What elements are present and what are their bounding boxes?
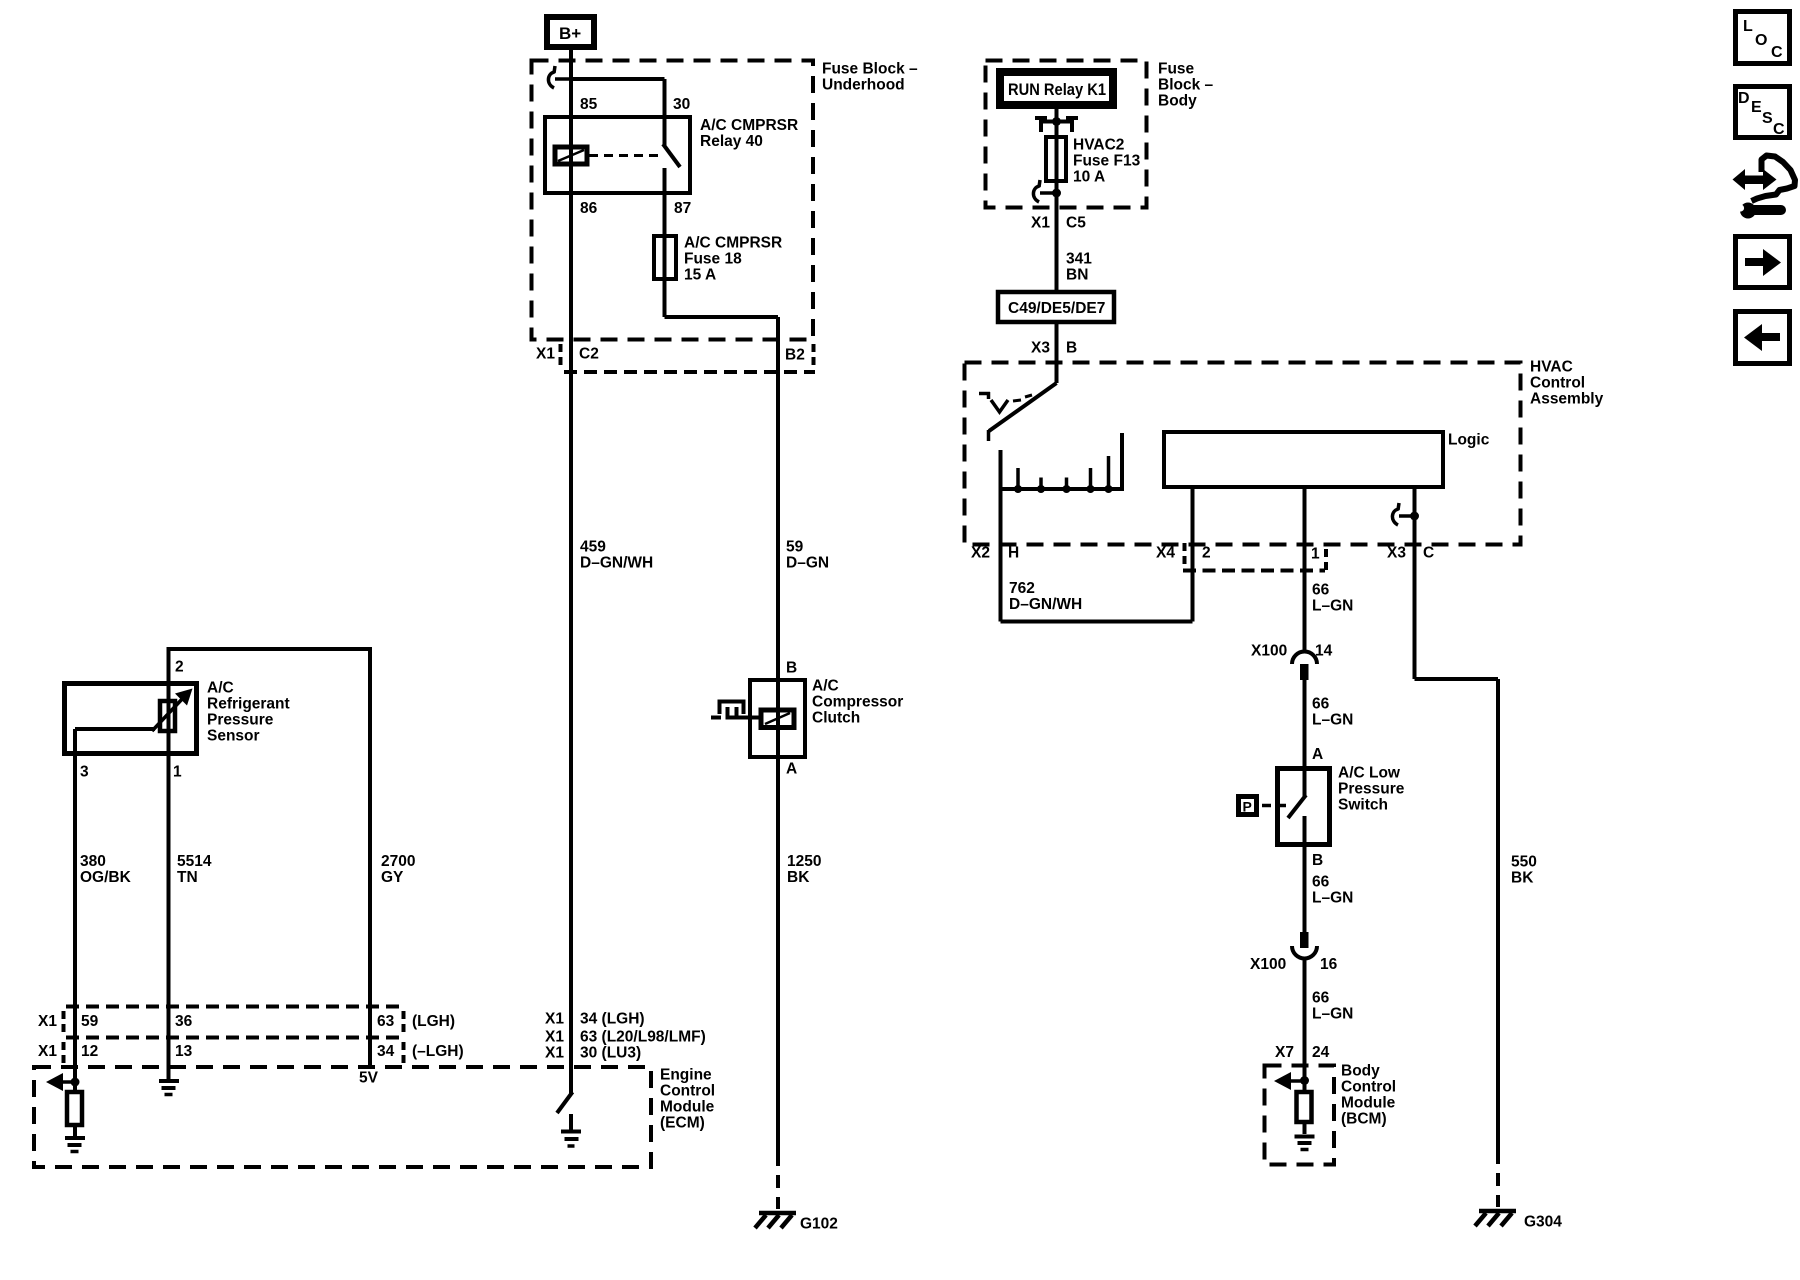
wire 66 L-GN (X100 to switch) (1305, 680, 1354, 797)
svg-text:Assembly: Assembly (1530, 391, 1604, 408)
wire 762 D-GN/WH (1001, 487, 1193, 622)
wire fuse 18 to B2 (665, 279, 779, 317)
svg-text:34 (LGH): 34 (LGH) (580, 1011, 645, 1028)
clutch mechanical link (711, 702, 761, 720)
svg-text:59: 59 (81, 1013, 99, 1030)
svg-text:L–GN: L–GN (1312, 1006, 1353, 1023)
wire 550 BK (1415, 487, 1537, 1151)
ECM ground (459 path) (561, 1132, 581, 1147)
in-line connector X100 pin 16 (1250, 932, 1338, 973)
svg-text:1250: 1250 (787, 853, 821, 870)
svg-text:Fuse: Fuse (1158, 61, 1195, 78)
svg-text:66: 66 (1312, 582, 1330, 599)
svg-text:B: B (1066, 340, 1077, 357)
svg-text:D–GN/WH: D–GN/WH (580, 555, 653, 572)
svg-text:X3: X3 (1031, 340, 1050, 357)
svg-text:A: A (1312, 746, 1323, 763)
HVAC vacuum actuator symbol (979, 392, 1032, 412)
svg-text:2: 2 (175, 659, 184, 676)
svg-text:Refrigerant: Refrigerant (207, 696, 290, 713)
svg-text:5V: 5V (359, 1070, 379, 1087)
svg-text:BN: BN (1066, 267, 1088, 284)
connector C49/DE5/DE7 (998, 292, 1114, 322)
Engine Control Module (ECM) box (34, 1067, 715, 1168)
svg-text:66: 66 (1312, 874, 1330, 891)
svg-text:L–GN: L–GN (1312, 712, 1353, 729)
svg-text:A: A (786, 761, 797, 778)
svg-text:63 (L20/L98/LMF): 63 (L20/L98/LMF) (580, 1029, 706, 1046)
svg-text:BK: BK (1511, 870, 1534, 887)
svg-text:Module: Module (1341, 1095, 1396, 1112)
svg-text:66: 66 (1312, 990, 1330, 1007)
wire 5514 TN (167, 649, 171, 1079)
svg-text:63: 63 (377, 1013, 395, 1030)
svg-text:36: 36 (175, 1013, 193, 1030)
ECM pull-up resistor (67, 1082, 82, 1136)
svg-text:E: E (1751, 99, 1762, 116)
svg-text:Control: Control (660, 1083, 715, 1100)
HVAC mode switch blade (989, 383, 1057, 441)
svg-text:G304: G304 (1524, 1214, 1562, 1231)
svg-text:X1: X1 (545, 1011, 564, 1028)
relay socket connector (1035, 116, 1078, 132)
svg-text:13: 13 (175, 1043, 193, 1060)
svg-text:L: L (1743, 18, 1753, 35)
svg-text:Underhood: Underhood (822, 77, 905, 94)
svg-text:Relay 40: Relay 40 (700, 133, 763, 150)
connector X4 2 / 1 bracket (1156, 543, 1326, 571)
ECM ground (pin 12 path) (65, 1138, 85, 1152)
svg-text:C: C (1773, 121, 1785, 138)
icon LOC button (1736, 12, 1790, 64)
wire 59 D-GN (778, 317, 829, 680)
svg-text:D: D (1738, 90, 1750, 107)
wire branch B+ to relay pin 30 (571, 77, 665, 81)
connector X2 H (971, 545, 1019, 562)
svg-text:OG/BK: OG/BK (80, 869, 132, 886)
connector X3 B (1031, 340, 1077, 357)
svg-text:X1: X1 (38, 1013, 57, 1030)
HVAC2 Fuse F13 10 A (1046, 137, 1141, 186)
svg-text:15 A: 15 A (684, 267, 716, 284)
svg-text:762: 762 (1009, 580, 1035, 597)
svg-text:Body: Body (1158, 93, 1197, 110)
svg-text:Control: Control (1530, 375, 1585, 392)
svg-text:X1: X1 (545, 1029, 564, 1046)
svg-text:A/C CMPRSR: A/C CMPRSR (684, 235, 782, 252)
svg-text:550: 550 (1511, 854, 1537, 871)
BCM ground (1295, 1137, 1315, 1150)
svg-text:24: 24 (1312, 1044, 1330, 1061)
svg-text:B+: B+ (559, 24, 581, 43)
svg-text:HVAC2: HVAC2 (1073, 137, 1124, 154)
svg-text:C: C (1423, 545, 1434, 562)
svg-text:A/C: A/C (812, 678, 839, 695)
svg-text:O: O (1755, 32, 1767, 49)
svg-text:X4: X4 (1156, 545, 1175, 562)
svg-text:L–GN: L–GN (1312, 598, 1353, 615)
clutch coil (761, 710, 794, 728)
svg-text:X1: X1 (545, 1045, 564, 1062)
svg-text:X7: X7 (1275, 1044, 1294, 1061)
relay coil-contact dashed link (589, 154, 662, 157)
B+ power feed (547, 17, 594, 47)
wire 459 D-GN/WH (571, 47, 653, 1066)
svg-text:30: 30 (673, 96, 690, 113)
terminal clip at X3 C (1392, 503, 1419, 525)
svg-text:(BCM): (BCM) (1341, 1111, 1387, 1128)
svg-text:G102: G102 (800, 1216, 838, 1233)
HVAC Control Assembly box (965, 359, 1604, 545)
svg-text:Pressure: Pressure (207, 712, 274, 729)
svg-text:16: 16 (1320, 956, 1338, 973)
svg-text:B2: B2 (785, 347, 805, 364)
svg-text:Module: Module (660, 1099, 715, 1116)
svg-text:A/C CMPRSR: A/C CMPRSR (700, 117, 798, 134)
sensor internal wiper wire (75, 727, 155, 731)
terminal clip at B+ feed (548, 66, 571, 88)
connector X3 C (1387, 545, 1434, 562)
svg-text:30 (LU3): 30 (LU3) (580, 1045, 641, 1062)
svg-text:Fuse Block –: Fuse Block – (822, 61, 918, 78)
svg-text:87: 87 (674, 200, 691, 217)
wire 66 L-GN (switch to X100-16) (1305, 866, 1354, 932)
icon back button (1736, 312, 1790, 364)
svg-text:X2: X2 (971, 545, 990, 562)
wire 341 BN (1057, 193, 1093, 292)
svg-text:Fuse F13: Fuse F13 (1073, 153, 1141, 170)
wire RUN relay to fuse (1055, 109, 1059, 193)
svg-text:380: 380 (80, 853, 106, 870)
ECM connector row X1 59/36/63 (LGH) (38, 1007, 455, 1038)
svg-text:341: 341 (1066, 251, 1092, 268)
connector X1 C5 (1031, 215, 1086, 232)
svg-text:86: 86 (580, 200, 598, 217)
svg-text:59: 59 (786, 539, 804, 556)
svg-text:S: S (1762, 110, 1773, 127)
svg-text:5514: 5514 (177, 853, 212, 870)
svg-text:Clutch: Clutch (812, 710, 860, 727)
BCM pull-up resistor (1297, 1080, 1312, 1134)
svg-text:(–LGH): (–LGH) (412, 1043, 464, 1060)
svg-text:34: 34 (377, 1043, 395, 1060)
pressure actuator P (1239, 797, 1287, 815)
A/C CMPRSR Fuse 18 (654, 235, 782, 284)
ECM signal arrow (46, 1073, 75, 1091)
Body Control Module (BCM) box (1265, 1063, 1397, 1165)
sensor variable resistor (152, 689, 193, 732)
svg-text:Switch: Switch (1338, 797, 1388, 814)
Fuse Block - Body box (986, 61, 1214, 208)
svg-text:(ECM): (ECM) (660, 1115, 705, 1132)
ECM connector row X1 12/13/34 (-LGH) (38, 1042, 464, 1064)
wire 2700 GY (167, 647, 416, 1066)
svg-text:66: 66 (1312, 696, 1330, 713)
ECM connector pins X1 34/63/30 (545, 1011, 706, 1062)
svg-text:TN: TN (177, 869, 198, 886)
ECM driver switch (459 path) (557, 1066, 573, 1130)
svg-text:X100: X100 (1251, 643, 1287, 660)
in-line connector X100 pin 14 (1251, 643, 1333, 681)
svg-text:10 A: 10 A (1073, 169, 1105, 186)
wire 66 L-GN (X100 to BCM) (1305, 957, 1354, 1080)
svg-text:Compressor: Compressor (812, 694, 903, 711)
relay coil (555, 147, 587, 164)
BCM signal arrow (1274, 1072, 1304, 1090)
svg-text:X1: X1 (1031, 215, 1050, 232)
svg-text:RUN Relay K1: RUN Relay K1 (1008, 80, 1106, 99)
svg-text:1: 1 (1311, 546, 1320, 563)
svg-text:2700: 2700 (381, 853, 415, 870)
wire through clutch (776, 680, 780, 757)
ground G304 (1475, 1211, 1562, 1231)
wire C49 to HVAC (1055, 322, 1059, 383)
HVAC switch detent comb (999, 433, 1125, 493)
Fuse Block - Underhood box (532, 61, 918, 340)
ECM ground (pin 13 path) (159, 1081, 179, 1095)
svg-text:Fuse 18: Fuse 18 (684, 251, 742, 268)
svg-text:2: 2 (1202, 545, 1211, 562)
svg-text:Block –: Block – (1158, 77, 1214, 94)
low pressure switch contacts (1288, 766, 1306, 866)
wire 1250 BK (778, 757, 821, 1153)
terminal clip below fuse (1033, 180, 1061, 202)
A/C Refrigerant Pressure Sensor (65, 680, 290, 754)
A/C Compressor Clutch box (750, 678, 903, 758)
svg-text:Engine: Engine (660, 1067, 712, 1084)
svg-text:X3: X3 (1387, 545, 1406, 562)
relay switch contact (663, 79, 680, 236)
svg-text:C5: C5 (1066, 215, 1086, 232)
svg-text:L–GN: L–GN (1312, 890, 1353, 907)
icon forward button (1736, 237, 1790, 288)
svg-text:C49/DE5/DE7: C49/DE5/DE7 (1008, 300, 1105, 317)
icon vehicle data exchange (1733, 156, 1796, 219)
ground G102 (755, 1213, 838, 1233)
svg-text:Pressure: Pressure (1338, 781, 1405, 798)
svg-text:A/C Low: A/C Low (1338, 765, 1401, 782)
svg-text:C2: C2 (579, 346, 599, 363)
svg-text:D–GN: D–GN (786, 555, 829, 572)
svg-text:X1: X1 (38, 1043, 57, 1060)
wire 380 OG/BK (73, 729, 77, 1082)
icon DESC button (1736, 87, 1790, 139)
wire 550 BK dashed tail (1496, 1151, 1500, 1207)
svg-text:1: 1 (173, 764, 182, 781)
svg-text:B: B (1312, 852, 1323, 869)
svg-text:X1: X1 (536, 346, 555, 363)
svg-text:12: 12 (81, 1043, 98, 1060)
RUN Relay K1 (996, 68, 1117, 109)
A/C CMPRSR Relay 40 box (545, 117, 798, 193)
connector X7 24 (1275, 1044, 1330, 1061)
svg-text:BK: BK (787, 869, 810, 886)
wire 66 L-GN (logic to X100) (1305, 487, 1354, 651)
A/C Low Pressure Switch box (1278, 765, 1405, 845)
connector row X1 C2 / B2 (536, 344, 815, 372)
ECM node junction on pin 12 (71, 1078, 80, 1087)
svg-text:A/C: A/C (207, 680, 234, 697)
svg-text:C: C (1771, 44, 1783, 61)
svg-text:D–GN/WH: D–GN/WH (1009, 596, 1082, 613)
svg-text:14: 14 (1315, 643, 1333, 660)
svg-text:459: 459 (580, 539, 606, 556)
svg-text:X100: X100 (1250, 956, 1286, 973)
svg-text:GY: GY (381, 869, 404, 886)
wire 1250 BK dashed tail (776, 1153, 780, 1209)
svg-text:Control: Control (1341, 1079, 1396, 1096)
svg-text:3: 3 (80, 764, 89, 781)
svg-text:Body: Body (1341, 1063, 1380, 1080)
BCM junction node (1300, 1076, 1309, 1085)
svg-text:B: B (786, 660, 797, 677)
svg-text:(LGH): (LGH) (412, 1013, 455, 1030)
svg-text:H: H (1008, 545, 1019, 562)
Logic module (1164, 432, 1490, 488)
svg-text:HVAC: HVAC (1530, 359, 1573, 376)
svg-text:P: P (1243, 799, 1252, 815)
svg-text:85: 85 (580, 96, 598, 113)
svg-text:Sensor: Sensor (207, 728, 260, 745)
svg-text:Logic: Logic (1448, 432, 1490, 449)
